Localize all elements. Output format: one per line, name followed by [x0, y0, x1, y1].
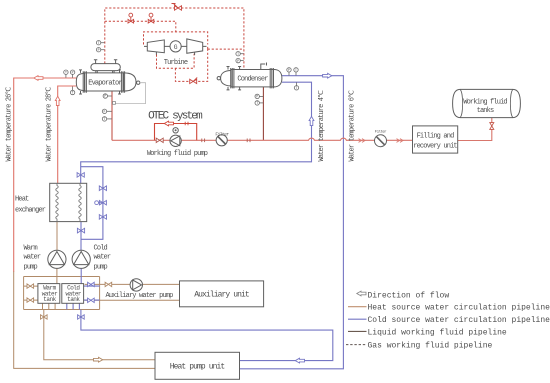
valve warm tank left upper: [27, 284, 34, 288]
condenser shell: [231, 70, 274, 87]
filter F2: [375, 135, 387, 147]
valve cold tank right upper: [88, 282, 95, 286]
svg-text:P: P: [98, 48, 100, 52]
evaporator studs: [79, 70, 121, 94]
wire turbine enclosure top: [144, 32, 208, 45]
valve working fluid pump inlet: [156, 138, 163, 142]
cold water pump P2: [72, 250, 90, 268]
wire cold tank drain to heat pump unit: [81, 310, 333, 361]
svg-text:P: P: [256, 95, 258, 99]
warm water tank box: [38, 284, 60, 304]
joint ticks pump loop: [185, 122, 188, 126]
svg-text:Condenser: Condenser: [237, 76, 268, 84]
evaporator steam drum: [91, 64, 120, 71]
valve cold supply above HX: [77, 173, 84, 178]
legend sample liquid working fluid: [348, 330, 367, 332]
wire cold water discharge 6C condenser to heat pump unit: [240, 76, 344, 369]
joint chevrons after filter2: [397, 139, 404, 143]
valve bypass upper: [99, 186, 106, 191]
evaporator right flange: [121, 71, 124, 92]
svg-text:T: T: [104, 117, 106, 121]
wire warm water supply 28C: [58, 86, 77, 183]
warm water pump P1: [48, 250, 66, 268]
instrument evap supply T: [70, 87, 74, 95]
svg-text:G: G: [174, 44, 178, 51]
instrument condenser drain P: [255, 94, 263, 98]
svg-text:P: P: [288, 68, 290, 72]
svg-text:T: T: [295, 68, 297, 72]
svg-text:recovery unit: recovery unit: [413, 143, 457, 151]
svg-text:Evaporator: Evaporator: [88, 80, 122, 88]
arrow flow left into heat pump unit: [295, 358, 304, 363]
svg-text:P: P: [237, 59, 239, 63]
wire warm tank drain to heat pump unit: [44, 310, 155, 360]
instrument evap inlet T: [64, 70, 68, 78]
svg-text:Auxiliary water pump: Auxiliary water pump: [105, 292, 173, 300]
svg-text:Turbine: Turbine: [164, 59, 188, 67]
svg-text:Water temperature 28℃: Water temperature 28℃: [46, 86, 54, 161]
instrument condenser outlet T: [294, 68, 298, 76]
wire turbine exhaust duct: [157, 54, 195, 68]
arrow flow right on warm drain: [94, 357, 103, 362]
joint chevrons before filter2: [359, 139, 366, 143]
valve cold tank drain: [78, 315, 85, 319]
wire gas turbine inlet branch: [105, 21, 176, 32]
valve auxiliary line: [105, 282, 112, 286]
svg-text:Water temperature 26℃: Water temperature 26℃: [6, 86, 14, 161]
condenser top vent: [261, 63, 267, 70]
heat pump unit box: [155, 352, 240, 379]
instrument condenser outlet P: [287, 68, 291, 76]
svg-text:T: T: [296, 86, 298, 90]
svg-text:water: water: [24, 253, 41, 261]
svg-text:exchanger: exchanger: [15, 207, 46, 215]
evaporator bleed tiny valve: [113, 102, 116, 105]
turbine T1 left casing: [147, 40, 164, 53]
svg-text:Water temperature 6℃: Water temperature 6℃: [349, 90, 357, 162]
wire working fluid pump bypass loop: [155, 124, 197, 141]
arrow flow up on cold supply: [309, 116, 314, 125]
turbine exhaust stubs: [156, 52, 194, 55]
wire warm tank left stubs: [24, 286, 38, 300]
evaporator bleed line gray: [112, 83, 146, 104]
condenser studs: [227, 67, 242, 90]
wire filling unit to working fluid tanks: [458, 118, 492, 141]
wire gas bypass: evaporator drum top up, across, down to condenser: [105, 8, 244, 70]
wire main liquid working fluid line with hops: [112, 138, 413, 140]
arrow flow left on pump bypass loop: [164, 121, 173, 126]
evaporator right nozzle: [137, 81, 140, 84]
valve warm tank drain: [41, 315, 48, 319]
wire heat exchanger to cold water pump: [80, 222, 82, 251]
auxiliary unit box: [180, 281, 264, 307]
svg-text:Working fluid: Working fluid: [463, 99, 507, 107]
svg-text:pump: pump: [94, 264, 108, 272]
svg-text:Filter: Filter: [375, 129, 388, 134]
wire warm discharge lower section to heat pump unit: [14, 272, 155, 369]
generator G circle: [170, 41, 181, 52]
wire cold water supply 4C condenser to heat exchanger: [81, 82, 312, 183]
valve gas exhaust: [190, 77, 198, 83]
svg-text:water: water: [94, 253, 111, 261]
heat exchanger left coil: [56, 183, 59, 221]
svg-text:tank: tank: [43, 296, 56, 303]
svg-text:P: P: [72, 70, 74, 74]
filter F1: [216, 135, 227, 146]
svg-text:Heat source water circulation: Heat source water circulation pipeline: [368, 304, 550, 313]
valve bypass lower: [99, 215, 106, 220]
svg-text:T: T: [65, 70, 67, 74]
valve cold below HX: [77, 228, 84, 233]
legend sample heat source: [348, 306, 367, 308]
legend arrow direction of flow: [357, 291, 366, 296]
filling and recovery unit box: [413, 126, 458, 153]
svg-text:Water temperature 4℃: Water temperature 4℃: [318, 90, 326, 162]
wire tank bus rectangle: [24, 277, 100, 310]
wire turbine exhaust to condenser: [175, 46, 244, 81]
wire auxiliary upper line: [85, 283, 180, 285]
wire warm tank legs: [43, 303, 56, 309]
working fluid pump motor: [173, 128, 178, 133]
evaporator E1 shell: [76, 73, 136, 91]
evaporator drum top vents: [94, 60, 117, 64]
instrument evap drum T: [96, 41, 104, 45]
valve gas inlet 1: [128, 13, 134, 23]
svg-text:F: F: [104, 110, 106, 114]
valve bypass globe: [95, 201, 107, 205]
turbine right casing: [187, 39, 203, 53]
condenser right cap: [274, 70, 282, 87]
svg-text:tank: tank: [67, 296, 80, 303]
valve working fluid tank: [490, 123, 494, 130]
wire heat exchanger bypass branch: [81, 167, 103, 240]
svg-text:Cold: Cold: [94, 245, 108, 253]
svg-text:T: T: [72, 91, 74, 95]
svg-text:T: T: [256, 101, 258, 105]
condenser right flange: [270, 68, 273, 88]
valve warm tank left lower: [27, 298, 34, 302]
svg-text:P: P: [104, 94, 106, 98]
instrument evap drain T: [102, 117, 112, 121]
wire cold tank right stubs: [84, 286, 100, 300]
joint ticks pump outlet: [202, 139, 205, 143]
heat exchanger box: [50, 183, 87, 221]
cold water tank box: [62, 284, 84, 304]
arrow flow right on cold discharge: [323, 73, 332, 78]
instrument condenser supply T: [294, 82, 298, 90]
svg-text:T: T: [98, 41, 100, 45]
joint ticks filter outlet: [247, 139, 250, 143]
svg-text:pump: pump: [24, 264, 38, 272]
instrument evap drain F: [102, 109, 112, 113]
svg-text:Filling and: Filling and: [417, 133, 455, 141]
instrument evap inlet P: [70, 70, 74, 78]
wire warm water pump to warm tank: [56, 268, 58, 283]
instrument condenser gas T: [236, 52, 244, 56]
svg-text:tanks: tanks: [477, 107, 494, 115]
working fluid tanks vessel: [453, 89, 521, 117]
instrument condenser drain T: [255, 101, 263, 105]
svg-text:Cold source water circulation: Cold source water circulation pipeline: [368, 316, 550, 325]
valve gas top bypass: [172, 4, 182, 11]
arrow flow up on warm supply: [55, 96, 60, 105]
svg-text:Working fluid pump: Working fluid pump: [147, 150, 208, 158]
legend sample gas working fluid: [346, 344, 367, 346]
instrument condenser gas P: [236, 58, 244, 62]
valve cold tank right lower: [88, 298, 95, 302]
condenser left flange: [231, 68, 234, 88]
wire heat exchanger to warm water pump: [56, 222, 58, 251]
wire condenser liquid drain: [262, 87, 264, 140]
arrow flow left on warm discharge: [34, 76, 43, 81]
svg-text:Liquid working fluid pipeline: Liquid working fluid pipeline: [368, 328, 507, 337]
svg-text:Warm: Warm: [24, 245, 38, 253]
legend sample cold source: [348, 318, 367, 320]
evaporator drum legs: [96, 71, 114, 73]
svg-text:Filter: Filter: [215, 131, 229, 137]
svg-text:OTEC system: OTEC system: [148, 110, 203, 122]
svg-text:Gas working fluid pipeline: Gas working fluid pipeline: [368, 342, 493, 351]
wire warm water discharge 26C: [14, 78, 77, 272]
valve gas inlet 2: [148, 13, 154, 23]
svg-text:Direction of flow: Direction of flow: [368, 291, 450, 300]
svg-text:Auxiliary unit: Auxiliary unit: [194, 291, 249, 300]
auxiliary water pump P3: [130, 279, 142, 291]
condenser left cap: [221, 71, 231, 86]
working fluid pump P4: [170, 135, 181, 146]
evaporator left flange: [83, 71, 86, 92]
instrument evap drain P: [103, 94, 112, 98]
instrument evap drum P: [96, 48, 104, 52]
wire evaporator liquid drain: [111, 91, 113, 140]
wire cold water pump to cold tank: [80, 268, 82, 283]
wire cold tank legs: [67, 303, 80, 309]
svg-text:Heat pump unit: Heat pump unit: [170, 363, 225, 372]
heat exchanger right coil: [79, 183, 82, 221]
svg-text:Heat: Heat: [15, 196, 29, 204]
condenser C1 left nozzle: [217, 77, 220, 80]
wire auxiliary lower line: [85, 299, 180, 301]
turbine shafts: [144, 45, 207, 47]
svg-text:T: T: [237, 52, 239, 56]
